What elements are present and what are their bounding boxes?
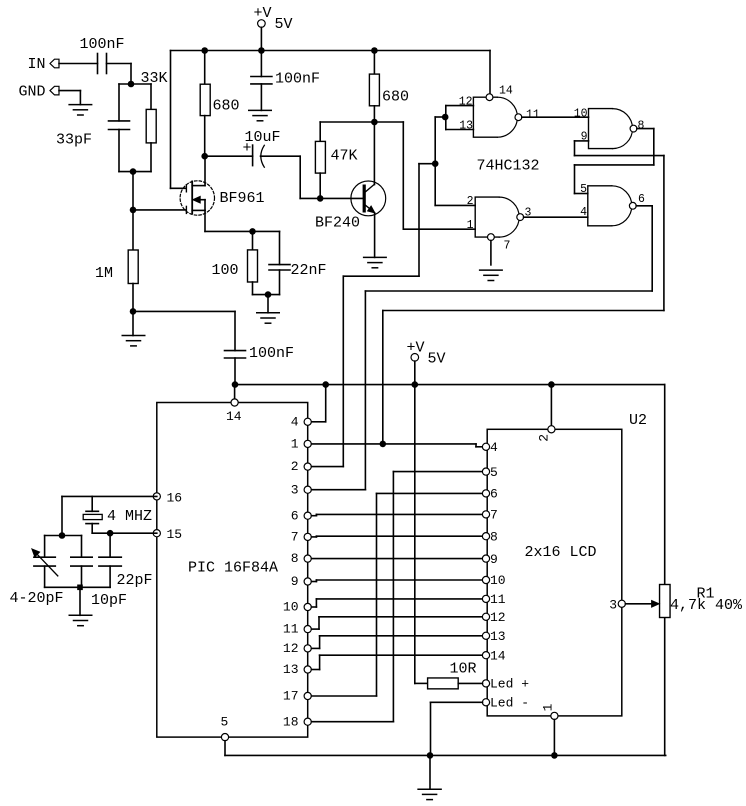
svg-text:2: 2: [537, 434, 552, 442]
pin 8 PIC: [304, 555, 311, 562]
label pin 2: [467, 195, 474, 208]
svg-text:8: 8: [490, 529, 498, 544]
wire source node: [205, 230, 280, 232]
svg-text:U2: U2: [629, 412, 647, 429]
pin 13 LCD: [482, 632, 489, 639]
label 680 second: [382, 89, 409, 106]
wire PIC pin11 to LCD pin12: [312, 617, 483, 629]
svg-text:10pF: 10pF: [91, 592, 127, 609]
svg-text:Led +: Led +: [490, 677, 529, 692]
label BF961: [220, 190, 265, 207]
label pin 8: [638, 119, 645, 132]
svg-text:1: 1: [291, 437, 299, 452]
wire gate node vertical: [132, 172, 134, 210]
wire PIC pin13 to LCD pin14: [312, 655, 483, 669]
label pin 11 PIC: [283, 622, 299, 637]
resistor 47K: [315, 122, 325, 198]
svg-text:4: 4: [490, 440, 498, 455]
svg-text:10R: 10R: [450, 660, 477, 677]
pin 17 PIC: [304, 692, 311, 699]
wire 47K top to collector node: [320, 121, 374, 123]
pin 15 PIC: [153, 530, 160, 537]
junction rail at 100nF: [232, 381, 239, 388]
pin 10 LCD: [482, 576, 489, 583]
label pin 4 PIC: [291, 414, 299, 429]
junction rail at LCD pin2 drop: [548, 381, 555, 388]
svg-text:2x16 LCD: 2x16 LCD: [525, 544, 597, 561]
ground below gateB pin7: [480, 241, 503, 281]
svg-text:8: 8: [291, 551, 299, 566]
label 1M: [95, 265, 113, 282]
pin Led- LCD: [482, 699, 489, 706]
chip 2x16 LCD box: [487, 429, 622, 716]
pin 12 LCD: [482, 613, 489, 620]
ground below 1M: [122, 311, 145, 346]
pin 5 LCD: [482, 468, 489, 475]
svg-text:2: 2: [291, 459, 299, 474]
wire PIC pin5 down: [224, 741, 226, 756]
label 33K: [141, 70, 168, 87]
junction gate node: [130, 207, 137, 214]
svg-text:10: 10: [490, 573, 506, 588]
label 33pF: [56, 132, 92, 149]
svg-text:+: +: [243, 140, 252, 157]
svg-text:6: 6: [490, 487, 498, 502]
crystal X1 4MHZ: [83, 496, 110, 533]
label pin 3: [525, 206, 532, 219]
label 10R: [450, 660, 477, 677]
label pin 7: [504, 239, 511, 252]
svg-text:1: 1: [467, 219, 474, 232]
label BF240: [315, 215, 360, 232]
svg-text:680: 680: [213, 97, 240, 114]
wire gateC pin9 to PIC pin1 node: [383, 141, 664, 444]
svg-text:5: 5: [490, 465, 498, 480]
junction base node: [317, 195, 324, 202]
wire rail down to R1: [664, 385, 666, 585]
wire gate node bar: [119, 171, 151, 173]
wire PIC pin12 to LCD pin13: [312, 636, 483, 649]
svg-text:13: 13: [490, 629, 506, 644]
wire bottom ground rail: [225, 754, 666, 756]
junction trimmer top: [59, 532, 66, 539]
wire Led- down: [431, 702, 483, 755]
svg-text:7: 7: [490, 508, 498, 523]
svg-text:3: 3: [291, 482, 299, 497]
pin 6 PIC: [304, 512, 311, 519]
wire base Q2: [320, 197, 362, 199]
svg-text:1: 1: [541, 703, 556, 711]
label pin 14: [499, 84, 513, 97]
svg-text:10: 10: [283, 600, 299, 615]
label 22nF: [291, 262, 327, 279]
svg-text:680: 680: [382, 89, 409, 106]
junction gate node top: [130, 168, 137, 175]
svg-text:+V: +V: [407, 340, 425, 357]
junction oscillator ground: [77, 585, 83, 591]
label pin 5 LCD: [490, 465, 498, 480]
label pin 6: [638, 193, 645, 206]
pin 3 LCD: [618, 600, 625, 607]
wire PIC pin1 to LCD pin4: [312, 444, 483, 447]
pin 3 PIC: [304, 486, 311, 493]
svg-text:33K: 33K: [141, 70, 168, 87]
wire gate1 of Q1: [133, 209, 186, 211]
svg-text:GND: GND: [19, 84, 46, 101]
wire 33K bottom lead: [150, 143, 152, 172]
pin 4 PIC: [304, 418, 311, 425]
svg-text:5: 5: [221, 715, 229, 730]
wire Q1 source down: [204, 210, 206, 231]
svg-text:22nF: 22nF: [291, 262, 327, 279]
capacitor 100nF PIC decoupling: [225, 351, 246, 385]
label 680 first: [213, 97, 240, 114]
label 47K: [331, 147, 358, 164]
label pin 10 LCD: [490, 573, 506, 588]
resistor 1M: [128, 250, 138, 284]
wire PIC pin18 to LCD pin5: [312, 472, 483, 722]
wire gateA input bracket: [446, 106, 474, 130]
capacitor trimmer 4-20pF: [32, 549, 58, 576]
label pin 7 LCD: [490, 508, 498, 523]
transistor Q1 BF961 dual-gate MOSFET: [180, 156, 214, 215]
label 100nF decoupling: [275, 71, 320, 88]
wire rail to PIC pin4: [312, 385, 326, 422]
pin 14 PIC: [231, 399, 238, 406]
capacitor 22nF: [269, 231, 290, 294]
wire node IN2 bar: [119, 84, 151, 121]
svg-text:11: 11: [490, 592, 506, 607]
svg-text:33pF: 33pF: [56, 132, 92, 149]
svg-text:4: 4: [291, 414, 299, 429]
pin 2 LCD: [548, 426, 555, 433]
svg-text:9: 9: [291, 574, 299, 589]
label pin 6 PIC: [291, 508, 299, 523]
wire collector node to gateB pin1: [374, 122, 475, 229]
pin 11 PIC: [304, 626, 311, 633]
svg-text:PIC 16F84A: PIC 16F84A: [188, 560, 278, 577]
svg-text:12: 12: [490, 610, 506, 625]
pin 9 LCD: [482, 555, 489, 562]
wire PIC pin8 to LCD pin9: [312, 558, 483, 560]
svg-text:7: 7: [504, 239, 511, 252]
label pin 12 LCD: [490, 610, 506, 625]
junction rail at PIC pin4 drop: [322, 381, 329, 388]
wire 100-22nF bottom bar: [253, 294, 280, 296]
label 5V mid: [428, 350, 446, 367]
pin 2 PIC: [304, 463, 311, 470]
label pin 2 LCD rotated: [537, 434, 552, 442]
pin 16 PIC: [153, 493, 160, 500]
label GND: [19, 84, 46, 101]
svg-text:74HC132: 74HC132: [477, 157, 540, 174]
label pin 2 PIC: [291, 459, 299, 474]
label pin 1 LCD rotated: [541, 703, 556, 711]
junction rail at +V mid: [412, 381, 419, 388]
label pin 1: [467, 219, 474, 232]
junction node to PIC pin2: [432, 160, 439, 167]
label pin 9: [581, 130, 588, 143]
label pin 1 PIC: [291, 437, 299, 452]
capacitor 22pF: [99, 533, 121, 587]
svg-text:2: 2: [467, 195, 474, 208]
label pin 8 LCD: [490, 529, 498, 544]
svg-text:10: 10: [574, 107, 588, 120]
wire rail to pin14: [489, 51, 491, 94]
ground at GND terminal: [69, 105, 92, 115]
pin 7 LCD: [482, 511, 489, 518]
label R1: [697, 585, 715, 602]
label pin 3 PIC: [291, 482, 299, 497]
wire gateC out to gateD pin5: [575, 129, 654, 194]
junction pin1 node: [380, 441, 387, 448]
svg-text:100nF: 100nF: [249, 345, 294, 362]
label pin 16 PIC: [167, 490, 183, 505]
wire C-in to node IN2: [107, 64, 132, 85]
nand gate U1D 74HC132: [588, 186, 636, 226]
pin 12 PIC: [304, 645, 311, 652]
label +V mid: [407, 340, 425, 357]
nand gate U1C 74HC132: [589, 109, 637, 149]
wire 10R to Led+: [458, 682, 482, 684]
wire PIC pin16 left: [62, 496, 157, 535]
wire rail to gate2 of Q1: [171, 51, 186, 189]
label 10pF: [91, 592, 127, 609]
label U2: [629, 412, 647, 429]
label 22pF: [117, 572, 153, 589]
wire PIC pin2 right: [312, 466, 344, 468]
label pin 18 PIC: [283, 714, 299, 729]
label pin 10 PIC: [283, 600, 299, 615]
wire to PIC pin15: [110, 532, 157, 534]
svg-text:12: 12: [283, 641, 299, 656]
label 5V top: [275, 16, 293, 33]
label pin 17 PIC: [283, 689, 299, 704]
ground below 100nF decoupling: [249, 110, 272, 120]
capacitor 100nF decoupling top: [251, 51, 272, 111]
resistor 10R: [428, 678, 459, 689]
terminal IN: [50, 59, 59, 68]
wire to 1M: [132, 210, 134, 250]
label Led+ LCD: [490, 677, 529, 692]
label pin 12: [459, 96, 473, 109]
svg-text:47K: 47K: [331, 147, 358, 164]
label pin 4: [580, 206, 587, 219]
label pin 6 LCD: [490, 487, 498, 502]
label 10uF plus: [243, 140, 252, 157]
svg-text:Led -: Led -: [490, 696, 529, 711]
resistor 680 second: [369, 51, 379, 123]
ground symbol bottom: [418, 755, 441, 799]
label 2x16 LCD: [525, 544, 597, 561]
svg-text:4,7k 40%: 4,7k 40%: [670, 597, 743, 614]
svg-text:14: 14: [490, 648, 506, 663]
junction gateA inputs: [442, 114, 449, 121]
potentiometer R1 4,7k: [660, 585, 671, 618]
wire gateA out to gateC pin10: [522, 116, 589, 118]
svg-text:100nF: 100nF: [80, 36, 125, 53]
pin 9 PIC: [304, 578, 311, 585]
capacitor 100nF input coupling: [98, 54, 107, 74]
power +V 5V mid: [411, 354, 419, 385]
wire 33pF bottom lead: [118, 130, 120, 172]
wire lower +5V rail: [235, 384, 665, 386]
wire gateA inputs to gateB pin2: [435, 117, 475, 205]
wire gateB out to gateD pin4: [524, 216, 588, 218]
svg-text:13: 13: [459, 120, 473, 133]
label IN: [28, 56, 46, 73]
junction crystal to pin15: [107, 530, 114, 537]
label +V top: [254, 5, 272, 22]
junction 1M bottom: [130, 308, 137, 315]
pin 11 LCD: [482, 595, 489, 602]
wire 100nF to PIC top: [133, 311, 235, 350]
svg-text:6: 6: [638, 193, 645, 206]
label pin 14 LCD: [490, 648, 506, 663]
chip PIC 16F84A box: [157, 403, 308, 738]
wire IN to C-in: [59, 63, 98, 65]
label pin 8 PIC: [291, 551, 299, 566]
wire drain node to 10uF: [205, 155, 253, 157]
pin 18 PIC: [304, 718, 311, 725]
svg-text:13: 13: [283, 662, 299, 677]
svg-text:6: 6: [291, 508, 299, 523]
wire GND terminal: [59, 91, 80, 105]
svg-text:15: 15: [167, 527, 183, 542]
label pin 13: [459, 120, 473, 133]
power +V 5V top: [258, 20, 266, 51]
wire 10uF to 47K node: [261, 156, 321, 198]
svg-text:1M: 1M: [95, 265, 113, 282]
svg-text:IN: IN: [28, 56, 46, 73]
svg-text:5V: 5V: [428, 350, 446, 367]
label Led- LCD: [490, 696, 529, 711]
pin 6 LCD: [482, 490, 489, 497]
label pin 13 LCD: [490, 629, 506, 644]
wire rail to LCD pin2: [550, 385, 552, 426]
svg-text:4-20pF: 4-20pF: [10, 590, 64, 607]
label pin 5: [580, 183, 587, 196]
ground below oscillator: [69, 587, 92, 625]
svg-text:14: 14: [499, 84, 513, 97]
wire PIC pin3 right: [312, 489, 366, 491]
label pin 9 LCD: [490, 552, 498, 567]
svg-text:14: 14: [226, 409, 242, 424]
pin 13 PIC: [304, 666, 311, 673]
wire 1M bottom lead: [132, 284, 134, 312]
svg-text:12: 12: [459, 96, 473, 109]
terminal GND: [50, 86, 59, 95]
svg-text:3: 3: [609, 597, 617, 612]
ground below Q2 emitter: [364, 257, 387, 267]
label pin 7 PIC: [291, 530, 299, 545]
pin Led+ LCD: [482, 680, 489, 687]
label pin 10: [574, 107, 588, 120]
label 100nF PIC: [249, 345, 294, 362]
svg-text:5V: 5V: [275, 16, 293, 33]
svg-text:BF961: BF961: [220, 190, 265, 207]
junction collector node: [371, 119, 378, 126]
transistor Q2 BF240: [351, 122, 386, 257]
wire PIC pin6 to LCD pin7: [312, 514, 483, 515]
wire R1 bottom to ground rail: [664, 618, 666, 756]
label 74HC132: [477, 157, 540, 174]
svg-text:11: 11: [526, 108, 540, 121]
wire gateD out to PIC pin3 node: [365, 206, 652, 490]
label pin 14 PIC: [226, 409, 242, 424]
nand gate U1A 74HC132: [473, 94, 521, 137]
junction rail at +V: [258, 47, 265, 54]
ground below source network: [257, 295, 280, 324]
label 100nF input cap: [80, 36, 125, 53]
pin 7 PIC: [304, 533, 311, 540]
pin 1 PIC: [304, 440, 311, 447]
wire top +5V rail: [171, 50, 491, 52]
svg-text:4 MHZ: 4 MHZ: [107, 508, 152, 525]
wire PIC pin7 to LCD pin8: [312, 535, 483, 538]
junction 100-22nF ground node: [265, 291, 272, 298]
junction rail at 680-2: [371, 47, 378, 54]
label PIC 16F84A: [188, 560, 278, 577]
label pin 9 PIC: [291, 574, 299, 589]
junction ground rail at LCD pin1: [551, 752, 558, 759]
capacitor 10uF electrolytic: [253, 145, 265, 167]
capacitor 10pF: [71, 557, 92, 587]
wire PIC pin10 to LCD pin11: [312, 599, 483, 607]
junction source node at 100: [249, 228, 256, 235]
pin 10 PIC: [304, 603, 311, 610]
wire PIC pin9 to LCD pin10: [312, 580, 483, 582]
svg-text:18: 18: [283, 714, 299, 729]
wire trimmer bottom bar: [45, 566, 111, 587]
svg-text:17: 17: [283, 689, 299, 704]
junction rail at 680-1: [201, 47, 208, 54]
svg-text:4: 4: [580, 206, 587, 219]
svg-text:5: 5: [580, 183, 587, 196]
resistor 33K: [146, 109, 156, 142]
svg-text:+V: +V: [254, 5, 272, 22]
pin 8 LCD: [482, 533, 489, 540]
junction drain node: [201, 153, 208, 160]
pin 1 LCD: [551, 712, 558, 719]
junction node IN2: [128, 81, 135, 88]
svg-text:9: 9: [490, 552, 498, 567]
label pin 12 PIC: [283, 641, 299, 656]
label pin 13 PIC: [283, 662, 299, 677]
wire trimmer top bar: [45, 536, 82, 558]
svg-text:22pF: 22pF: [117, 572, 153, 589]
svg-text:100: 100: [212, 262, 239, 279]
label pin 5 PIC: [221, 715, 229, 730]
wire rail to PIC pin14: [234, 385, 236, 399]
svg-text:8: 8: [638, 119, 645, 132]
svg-text:7: 7: [291, 530, 299, 545]
wire node to PIC pin2: [343, 164, 435, 467]
label pin 3 LCD: [609, 597, 617, 612]
junction ground rail at Led-: [427, 752, 434, 759]
wire LCD pin1 down: [553, 720, 555, 756]
pin 4 LCD: [482, 443, 489, 450]
label pin 15 PIC: [167, 527, 183, 542]
wire LCD pin3 to R1 wiper: [625, 601, 659, 608]
label 100: [212, 262, 239, 279]
svg-text:16: 16: [167, 490, 183, 505]
wire PIC pin17 to LCD pin6: [312, 493, 483, 696]
capacitor 33pF: [109, 121, 130, 130]
wire +5V down to 10R: [415, 385, 428, 684]
label 4 MHZ: [107, 508, 152, 525]
label pin 11: [526, 108, 540, 121]
